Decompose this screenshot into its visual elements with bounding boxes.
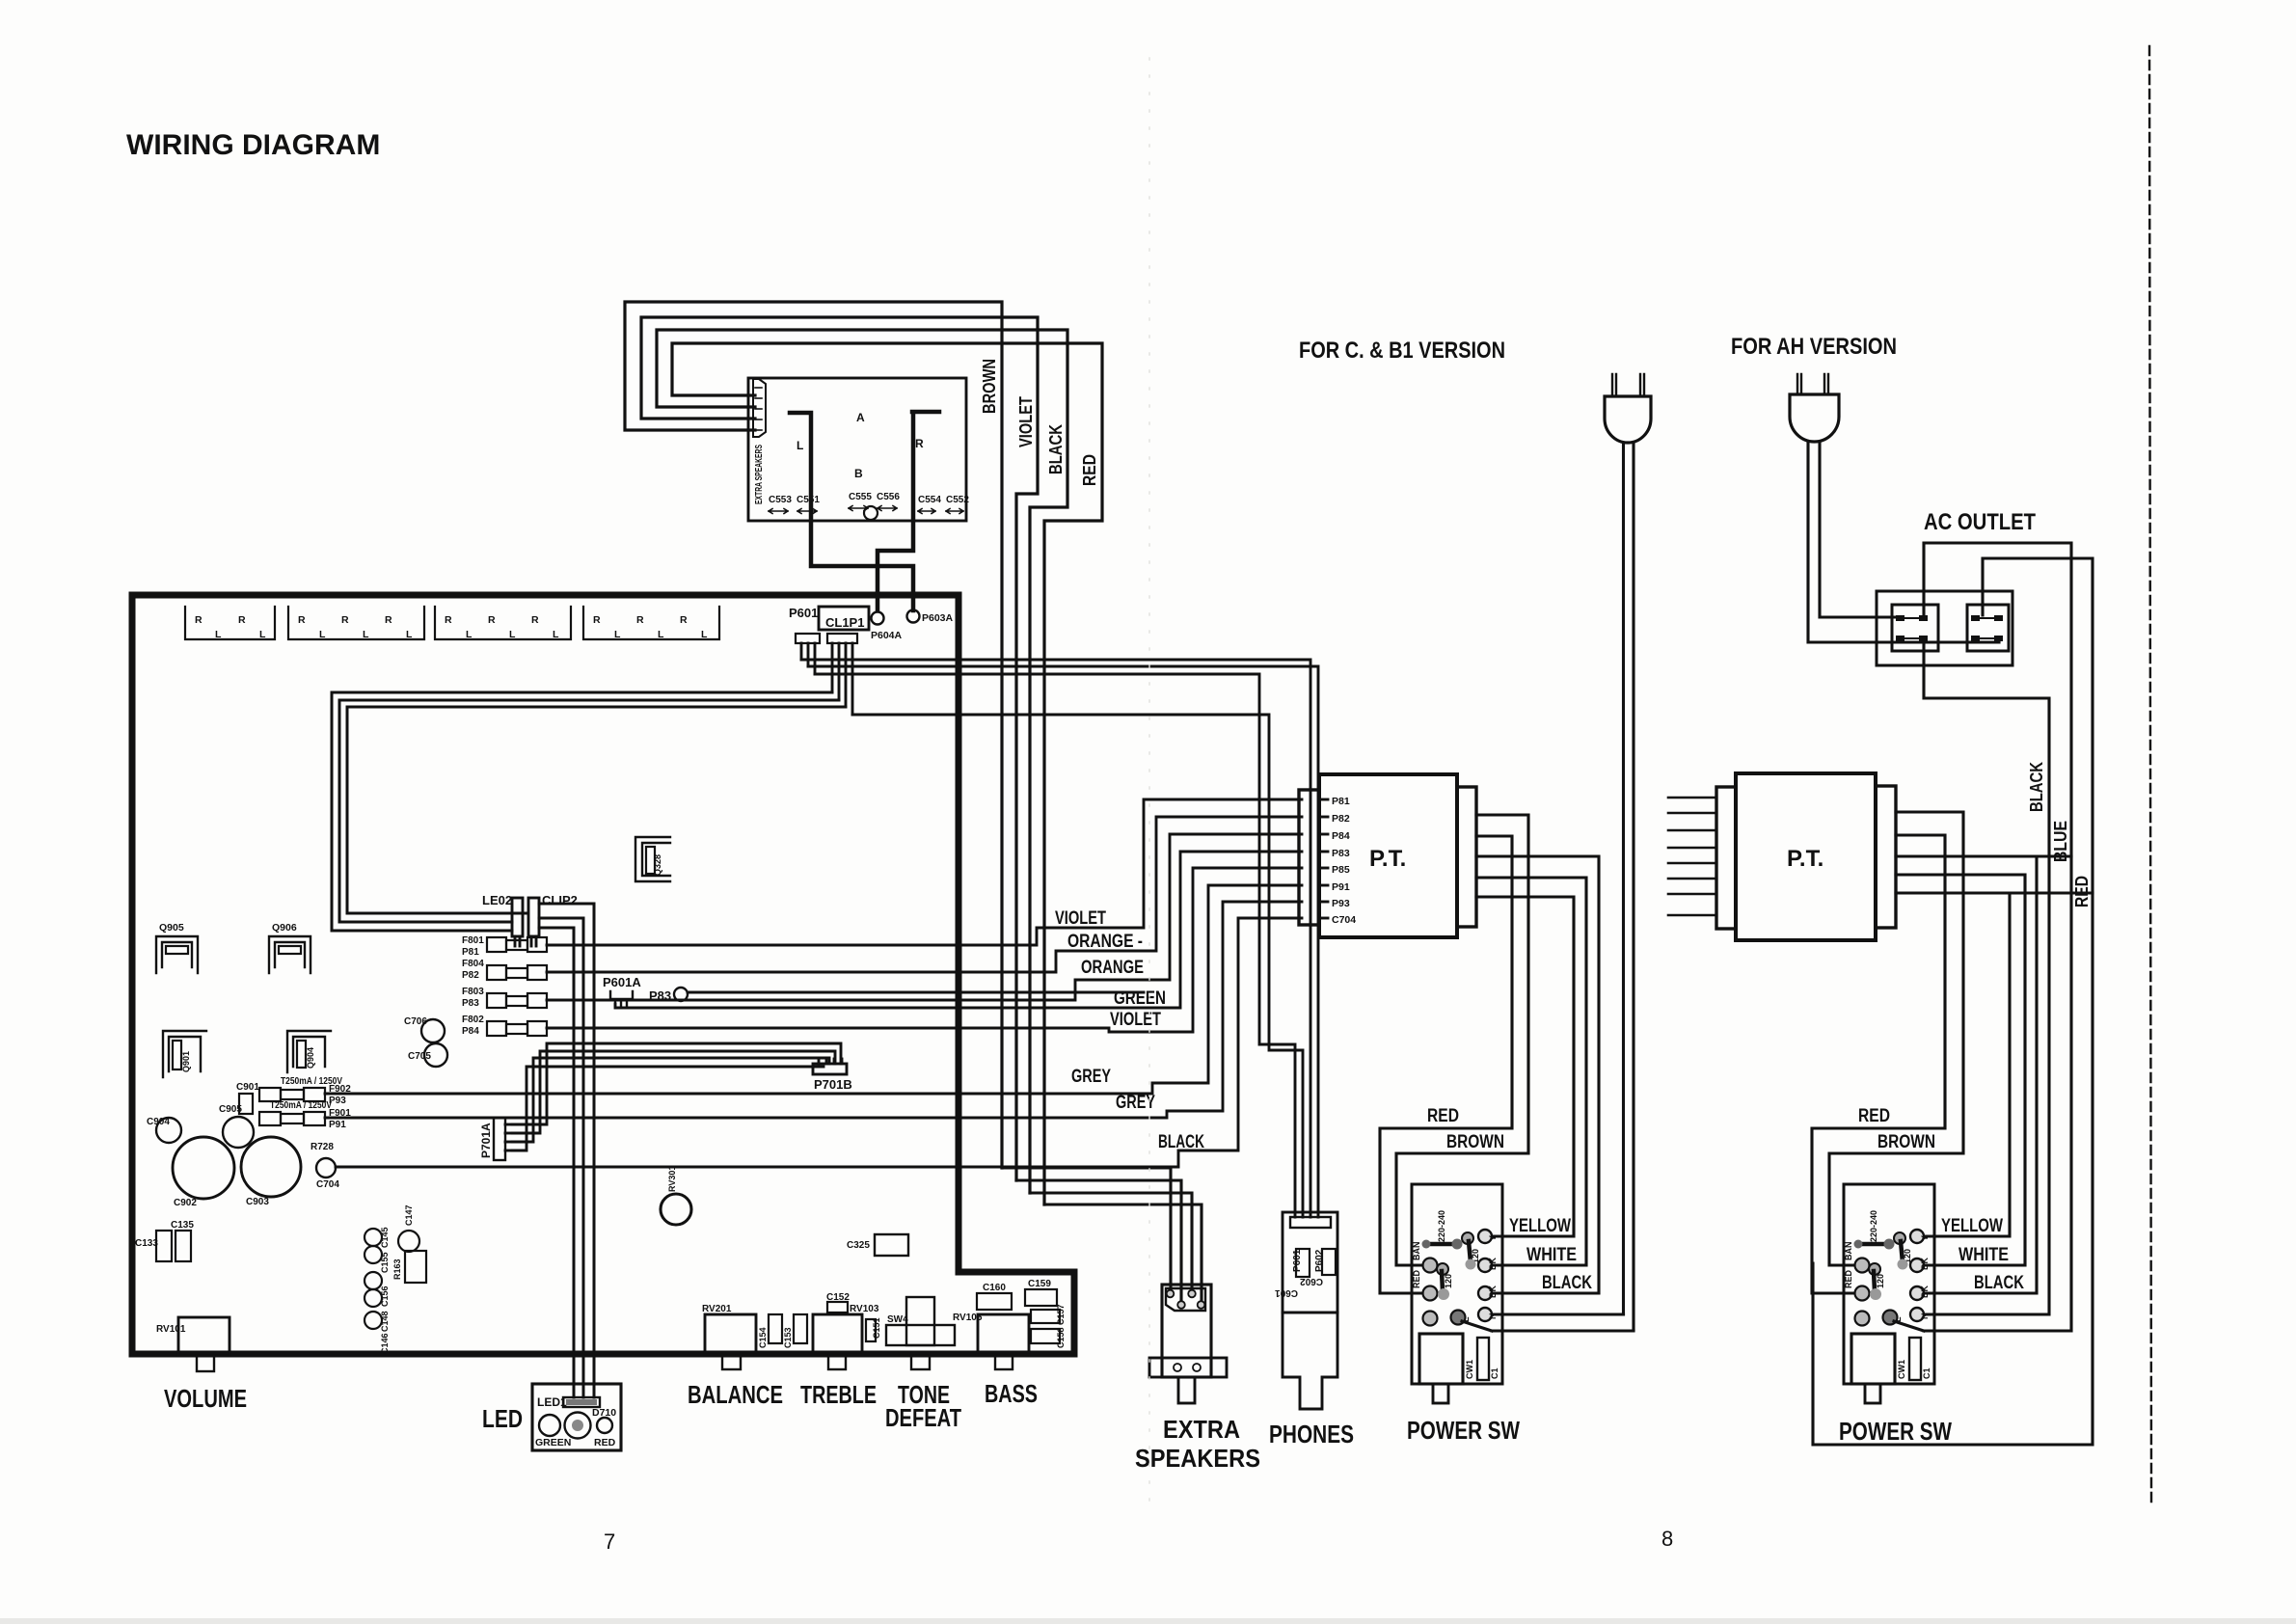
svg-text:C155: C155 xyxy=(380,1252,390,1273)
svg-text:R: R xyxy=(298,614,306,626)
svg-text:POWER SW: POWER SW xyxy=(1839,1417,1952,1446)
svg-text:C159: C159 xyxy=(1028,1279,1051,1289)
svg-text:RED: RED xyxy=(1427,1106,1459,1126)
svg-text:L: L xyxy=(259,629,266,640)
svg-text:C154: C154 xyxy=(758,1327,768,1348)
svg-text:POWER SW: POWER SW xyxy=(1407,1416,1520,1445)
svg-text:C325: C325 xyxy=(847,1240,870,1251)
speaker R wire (thick) to P604A xyxy=(878,412,939,610)
svg-text:C156: C156 xyxy=(380,1286,390,1307)
svg-text:BROWN: BROWN xyxy=(1877,1132,1935,1152)
svg-text:C157: C157 xyxy=(1056,1304,1066,1325)
phones wire 3 xyxy=(815,674,1295,1217)
svg-text:BK: BK xyxy=(1920,1258,1930,1270)
wire GREEN (P601A to PT P83) xyxy=(615,852,1302,1008)
svg-text:RED: RED xyxy=(1412,1269,1421,1288)
svg-text:GREY: GREY xyxy=(1071,1067,1111,1087)
svg-text:C904: C904 xyxy=(147,1117,170,1127)
svg-text:120: 120 xyxy=(1876,1274,1885,1288)
svg-text:C158: C158 xyxy=(1056,1327,1066,1348)
svg-text:R: R xyxy=(915,437,924,450)
svg-text:VIOLET: VIOLET xyxy=(1016,396,1036,447)
pot RV201 xyxy=(702,1304,756,1369)
svg-text:FOR AH VERSION: FOR AH VERSION xyxy=(1731,334,1897,360)
svg-text:RV301: RV301 xyxy=(667,1166,677,1192)
svg-text:ORANGE -: ORANGE - xyxy=(1067,932,1143,952)
power switch PSW2 (AH) xyxy=(1844,1184,1934,1403)
wire ORANGE- (F804 to PT P82) xyxy=(547,817,1302,972)
svg-text:C556: C556 xyxy=(877,492,900,502)
svg-text:C902: C902 xyxy=(174,1198,197,1208)
capacitor C135 xyxy=(176,1231,191,1261)
svg-text:R: R xyxy=(488,614,496,626)
wire GREY (F902 to PT P91) xyxy=(325,885,1302,1094)
page fold dashed line xyxy=(2149,46,2151,1504)
svg-text:L: L xyxy=(466,629,473,640)
wire violet loop xyxy=(641,317,1038,1180)
svg-text:P84: P84 xyxy=(462,1026,479,1037)
svg-text:L: L xyxy=(553,629,559,640)
svg-text:Y: Y xyxy=(1488,1235,1498,1241)
capacitor C901 xyxy=(236,1082,259,1114)
jack P604A xyxy=(872,612,884,625)
capacitor C705 xyxy=(424,1043,447,1067)
wire RED (outlet loop) xyxy=(1813,558,2093,1445)
svg-text:YELLOW: YELLOW xyxy=(1509,1216,1571,1236)
wire BLACK (C704 to PT C704) xyxy=(336,918,1302,1167)
LED D710 circle xyxy=(597,1418,612,1433)
svg-text:C145: C145 xyxy=(380,1227,390,1248)
wire N row to cord xyxy=(1492,1313,1624,1315)
fuse F804/P82 xyxy=(462,959,547,981)
wire loop CL1P1 to LE02 (middle) xyxy=(339,700,839,922)
PT1 pin labels xyxy=(1321,796,1356,926)
capacitor C704 xyxy=(316,1158,336,1177)
transistor Q906 xyxy=(269,922,311,973)
svg-text:P601: P601 xyxy=(1292,1249,1303,1272)
svg-text:R: R xyxy=(385,614,392,626)
svg-text:P93: P93 xyxy=(1332,898,1350,909)
capacitor C147 xyxy=(398,1231,419,1252)
svg-text:CL1P1: CL1P1 xyxy=(825,615,864,630)
fuse F901 xyxy=(259,1108,351,1130)
svg-text:LE02: LE02 xyxy=(482,893,512,907)
transistor Q328 xyxy=(635,837,670,881)
svg-text:C148: C148 xyxy=(380,1311,390,1332)
svg-text:Q906: Q906 xyxy=(272,922,297,934)
svg-text:C551: C551 xyxy=(797,495,820,505)
pot RV105 xyxy=(953,1313,1029,1369)
svg-text:B: B xyxy=(854,467,863,480)
svg-text:P84: P84 xyxy=(1332,830,1350,842)
pot RV101 xyxy=(156,1317,230,1371)
power transformer PT2 (AH) xyxy=(1716,773,1896,940)
svg-text:P601A: P601A xyxy=(603,975,641,989)
svg-text:P91: P91 xyxy=(1332,881,1350,893)
LED board xyxy=(532,1384,621,1450)
svg-text:F804: F804 xyxy=(462,959,484,969)
phones wire 2 xyxy=(808,666,1318,1217)
svg-text:7: 7 xyxy=(604,1529,615,1554)
svg-text:WHITE: WHITE xyxy=(1958,1245,2009,1265)
svg-text:RED: RED xyxy=(1080,454,1099,486)
connector CL1P1 box xyxy=(819,607,869,630)
svg-text:C1: C1 xyxy=(1922,1367,1931,1379)
svg-text:L: L xyxy=(319,629,326,640)
svg-text:C705: C705 xyxy=(408,1051,431,1062)
svg-text:R: R xyxy=(531,614,539,626)
svg-text:C146: C146 xyxy=(380,1333,390,1354)
wire PT2 to BROWN row (AH) xyxy=(1829,812,1963,1265)
capacitor C325 xyxy=(875,1234,908,1256)
RCA jack group 4 xyxy=(583,607,719,640)
mains cord (C&B1) xyxy=(1624,443,1634,1330)
svg-text:P.T.: P.T. xyxy=(1787,846,1823,872)
svg-text:PHONES: PHONES xyxy=(1269,1420,1354,1448)
svg-text:GREY: GREY xyxy=(1116,1093,1155,1113)
svg-text:F802: F802 xyxy=(462,1015,484,1025)
wire PT1 to WHITE row xyxy=(1476,878,1586,1265)
bottom scan edge xyxy=(0,1618,2296,1624)
RCA jack group 2 xyxy=(288,607,424,640)
wire P83 jack stub xyxy=(688,991,1144,994)
phones wire 1 xyxy=(801,660,1310,1217)
speaker terminal board (top) xyxy=(748,378,966,521)
transistor Q905 xyxy=(156,922,198,973)
mains plug (AH) xyxy=(1790,374,1839,442)
svg-text:R: R xyxy=(341,614,349,626)
connector CLIP2 xyxy=(528,893,578,946)
switch SW4 xyxy=(886,1297,955,1369)
svg-text:C706: C706 xyxy=(404,1016,427,1027)
pot RV103 xyxy=(813,1304,879,1369)
svg-text:RED: RED xyxy=(1844,1269,1853,1288)
svg-text:WHITE: WHITE xyxy=(1526,1245,1577,1265)
svg-text:F801: F801 xyxy=(462,935,484,946)
wire PT2 to WHITE row (AH) xyxy=(1896,875,2025,1265)
svg-text:BLACK: BLACK xyxy=(2027,762,2046,812)
connector LE02 xyxy=(482,893,523,946)
svg-text:P701B: P701B xyxy=(814,1077,852,1092)
svg-text:CW1: CW1 xyxy=(1465,1360,1474,1379)
svg-text:220-240: 220-240 xyxy=(1869,1210,1878,1242)
svg-text:C905: C905 xyxy=(219,1104,242,1115)
svg-text:P81: P81 xyxy=(462,947,479,958)
svg-text:YELLOW: YELLOW xyxy=(1941,1216,2003,1236)
connector P701B xyxy=(813,1059,852,1092)
svg-text:SW4: SW4 xyxy=(887,1314,908,1325)
svg-text:RED: RED xyxy=(594,1437,616,1448)
capacitor column C145/C155/C156/C148/C146 xyxy=(365,1227,390,1354)
wire PT1 to YELLOW row xyxy=(1476,897,1574,1236)
svg-text:120: 120 xyxy=(1444,1274,1453,1288)
svg-text:Y: Y xyxy=(1920,1235,1930,1241)
svg-text:P81: P81 xyxy=(1332,796,1350,807)
svg-text:VIOLET: VIOLET xyxy=(1110,1010,1161,1030)
svg-text:BAN: BAN xyxy=(1412,1242,1421,1261)
svg-text:RV201: RV201 xyxy=(702,1304,732,1314)
wire YELLOW row vertical (AH) xyxy=(1924,893,2010,1236)
svg-text:C555: C555 xyxy=(849,492,872,502)
svg-text:RV103: RV103 xyxy=(850,1304,879,1314)
svg-text:L: L xyxy=(797,439,803,452)
jack P83 xyxy=(674,988,688,1001)
svg-text:BLACK: BLACK xyxy=(1542,1273,1592,1293)
svg-text:Q901: Q901 xyxy=(181,1051,191,1072)
svg-text:EXTRA SPEAKERS: EXTRA SPEAKERS xyxy=(753,445,765,504)
svg-text:BLACK: BLACK xyxy=(1974,1273,2024,1293)
svg-text:220-240: 220-240 xyxy=(1437,1210,1446,1242)
svg-text:P.T.: P.T. xyxy=(1369,846,1406,872)
svg-text:BK: BK xyxy=(1488,1286,1498,1298)
svg-text:P83: P83 xyxy=(462,998,479,1009)
svg-text:SPEAKERS: SPEAKERS xyxy=(1135,1444,1260,1473)
svg-text:C554: C554 xyxy=(918,495,941,505)
connector below CL1P1 xyxy=(827,634,857,715)
main PCB board outline xyxy=(132,595,1074,1354)
svg-text:D710: D710 xyxy=(592,1407,616,1419)
svg-text:FOR C. & B1 VERSION: FOR C. & B1 VERSION xyxy=(1299,338,1505,364)
wire PT1 to BROWN row xyxy=(1396,815,1528,1265)
svg-text:CLIP2: CLIP2 xyxy=(542,893,578,907)
LED green circle xyxy=(539,1415,560,1436)
wire loop CL1P1 to CLIP2 (inner) xyxy=(347,707,846,913)
svg-text:Q905: Q905 xyxy=(159,922,184,934)
wire red loop xyxy=(672,343,1102,1204)
svg-text:L: L xyxy=(509,629,516,640)
phones wire 4 xyxy=(852,715,1303,1217)
svg-text:VIOLET: VIOLET xyxy=(1055,908,1106,929)
transistor Q901 xyxy=(163,1031,206,1077)
RCA jack group 3 xyxy=(435,607,571,640)
fuse F801/P81 xyxy=(462,935,547,958)
svg-text:L: L xyxy=(406,629,413,640)
wire PT2 to RED loop junction xyxy=(1896,891,2093,894)
capacitor C158 xyxy=(1031,1329,1060,1343)
svg-text:L: L xyxy=(363,629,369,640)
svg-text:T250mA / 1250V: T250mA / 1250V xyxy=(270,1100,332,1111)
svg-text:R: R xyxy=(680,614,688,626)
capacitor C903 xyxy=(241,1137,301,1197)
svg-text:Q328: Q328 xyxy=(653,854,662,876)
svg-text:BK: BK xyxy=(1488,1258,1498,1270)
wire PT1 to BLACK row xyxy=(1476,856,1599,1293)
svg-text:C153: C153 xyxy=(783,1327,793,1348)
svg-text:RV101: RV101 xyxy=(156,1324,186,1335)
svg-text:R163: R163 xyxy=(392,1259,402,1280)
wire PT1 to RED row xyxy=(1380,836,1512,1293)
speaker L wire (thick) to P603A xyxy=(790,413,913,610)
svg-text:N: N xyxy=(1488,1313,1498,1320)
capacitor C157 xyxy=(1031,1310,1060,1323)
svg-text:GREEN: GREEN xyxy=(1114,988,1166,1009)
PT2 left pin stubs xyxy=(1668,798,1716,915)
wire PT2 to RED row (AH) xyxy=(1812,835,1945,1293)
svg-text:BASS: BASS xyxy=(985,1379,1038,1408)
svg-text:R: R xyxy=(636,614,644,626)
svg-text:8: 8 xyxy=(1661,1527,1673,1551)
svg-text:P604A: P604A xyxy=(871,630,903,641)
wire VIOLET (F801 to PT P81) xyxy=(547,799,1302,945)
wire loop CL1P1 to LE02 (outer) xyxy=(332,692,832,931)
svg-text:VOLUME: VOLUME xyxy=(164,1384,247,1413)
capacitor C153 xyxy=(794,1314,807,1343)
connector P701A xyxy=(479,1118,512,1160)
svg-text:AC OUTLET: AC OUTLET xyxy=(1924,509,2036,535)
AC outlet block xyxy=(1877,591,2012,665)
PHONES board xyxy=(1275,1212,1337,1409)
svg-text:GREEN: GREEN xyxy=(535,1437,571,1448)
svg-text:C901: C901 xyxy=(236,1082,259,1093)
fuse F803/P83 xyxy=(462,987,547,1009)
svg-text:R: R xyxy=(195,614,203,626)
power transformer PT1 xyxy=(1299,774,1476,937)
wire VIOLET2 (F802 to PT P85) xyxy=(547,868,1302,1032)
svg-text:BK: BK xyxy=(1920,1286,1930,1298)
capacitor C904 xyxy=(156,1118,181,1143)
svg-text:BLACK: BLACK xyxy=(1158,1132,1204,1152)
svg-text:P601: P601 xyxy=(789,606,818,620)
svg-text:P82: P82 xyxy=(462,970,479,981)
svg-text:C133: C133 xyxy=(135,1238,158,1249)
capacitor C151 xyxy=(866,1319,876,1341)
EXTRA SPEAKERS jack xyxy=(1149,1285,1227,1403)
svg-text:BLACK: BLACK xyxy=(1046,424,1066,474)
wire L row to cord xyxy=(1492,1329,1634,1332)
svg-text:L: L xyxy=(701,629,708,640)
svg-text:N: N xyxy=(1920,1313,1930,1320)
svg-text:DEFEAT: DEFEAT xyxy=(885,1403,961,1432)
wire ORANGE (F803 to PT P84) xyxy=(547,834,1302,1000)
svg-text:C151: C151 xyxy=(872,1317,881,1339)
fuse F802/P84 xyxy=(462,1015,547,1037)
wires speaker bundle to extra speakers jack xyxy=(1002,1168,1171,1293)
svg-text:R: R xyxy=(593,614,601,626)
svg-text:C602: C602 xyxy=(1300,1276,1323,1286)
transistor Q904 xyxy=(287,1031,331,1072)
svg-text:C601: C601 xyxy=(1275,1287,1298,1298)
wire BLACK row vertical (AH) xyxy=(1924,856,2037,1293)
svg-text:L: L xyxy=(658,629,664,640)
svg-text:C552: C552 xyxy=(946,495,969,505)
pot RV301 xyxy=(661,1194,691,1225)
svg-text:LED: LED xyxy=(482,1404,523,1433)
page fold faint line xyxy=(1148,58,1150,1504)
svg-text:CW1: CW1 xyxy=(1897,1360,1906,1379)
svg-text:BROWN: BROWN xyxy=(1446,1132,1504,1152)
speaker terminal connector xyxy=(753,379,766,437)
svg-text:P91: P91 xyxy=(329,1120,346,1130)
connector P601A xyxy=(603,975,641,1006)
capacitor C154 xyxy=(769,1314,782,1343)
svg-text:P83: P83 xyxy=(1332,848,1350,859)
svg-text:TREBLE: TREBLE xyxy=(800,1380,877,1409)
hole circle on speaker board xyxy=(864,506,878,520)
svg-text:RED: RED xyxy=(1858,1106,1890,1126)
svg-text:P85: P85 xyxy=(1332,864,1350,876)
power switch PSW1 xyxy=(1412,1184,1502,1403)
svg-text:BROWN: BROWN xyxy=(980,359,999,414)
capacitor C133 xyxy=(156,1231,172,1261)
RCA jack group 1 xyxy=(185,607,275,640)
svg-text:EXTRA: EXTRA xyxy=(1163,1415,1240,1444)
svg-text:L: L xyxy=(614,629,621,640)
svg-text:WIRING DIAGRAM: WIRING DIAGRAM xyxy=(126,129,380,161)
svg-text:R: R xyxy=(445,614,452,626)
svg-text:L: L xyxy=(215,629,222,640)
wire PT2 to BLUE junction xyxy=(1896,854,2071,857)
svg-text:Q904: Q904 xyxy=(306,1047,315,1069)
svg-text:BALANCE: BALANCE xyxy=(688,1380,783,1409)
svg-text:ORANGE: ORANGE xyxy=(1081,958,1144,978)
mains cord (AH) to outlet xyxy=(1808,442,1999,642)
svg-text:C147: C147 xyxy=(404,1204,414,1226)
svg-text:A: A xyxy=(856,411,865,424)
svg-text:P602: P602 xyxy=(1314,1249,1325,1272)
capacitor C706 xyxy=(421,1019,445,1042)
wires P701A to P701B xyxy=(512,1043,841,1124)
svg-text:P603A: P603A xyxy=(922,612,954,624)
svg-text:C903: C903 xyxy=(246,1197,269,1207)
svg-text:C160: C160 xyxy=(983,1283,1006,1293)
svg-text:F803: F803 xyxy=(462,987,484,997)
jack P603A xyxy=(907,610,920,623)
LED wires from CLIP2 xyxy=(539,904,594,1397)
svg-text:C704: C704 xyxy=(316,1179,339,1190)
wire GREY2 (F901 to PT P93) xyxy=(325,902,1302,1118)
svg-text:BAN: BAN xyxy=(1844,1242,1853,1261)
fuse F902 xyxy=(259,1084,351,1106)
wire black loop xyxy=(657,330,1067,1193)
LED middle circle xyxy=(565,1413,591,1439)
svg-text:R728: R728 xyxy=(311,1142,334,1152)
svg-text:C704: C704 xyxy=(1332,914,1356,926)
svg-text:C1: C1 xyxy=(1490,1367,1499,1379)
svg-text:C135: C135 xyxy=(171,1220,194,1231)
wire BLACK (outlet to N row) xyxy=(1924,638,2049,1314)
connector below P601 xyxy=(796,634,820,674)
svg-text:R: R xyxy=(238,614,246,626)
svg-text:P82: P82 xyxy=(1332,813,1350,825)
capacitor C905 xyxy=(223,1117,254,1148)
svg-text:C553: C553 xyxy=(769,495,792,505)
svg-text:P701A: P701A xyxy=(479,1123,493,1158)
wire BLUE (outlet to L row) xyxy=(1924,543,2071,1331)
capacitor C902 xyxy=(173,1137,234,1199)
wire brown loop (terminal to vertical run) xyxy=(625,302,1002,1168)
mains plug (C&B1) xyxy=(1605,374,1651,1330)
resistor R163 xyxy=(405,1251,426,1283)
